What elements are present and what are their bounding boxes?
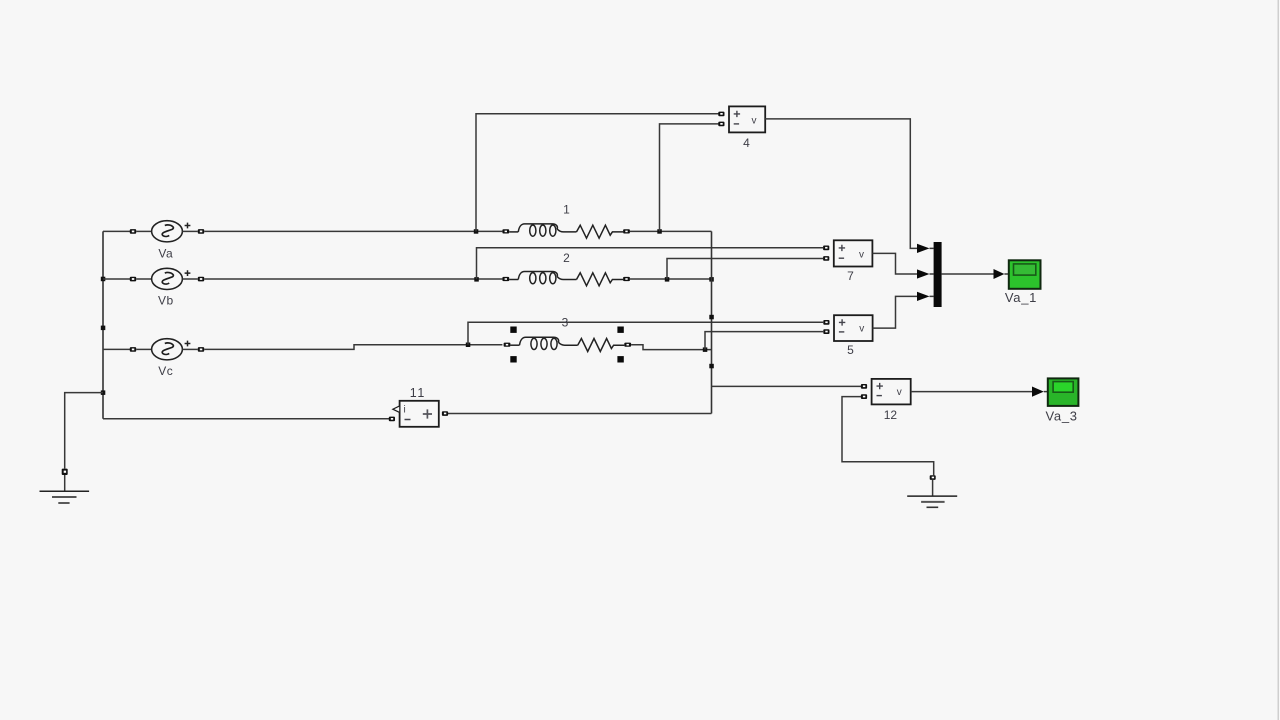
wire block 12 minus down to ground right bbox=[842, 397, 934, 476]
svg-text:Va_3: Va_3 bbox=[1045, 409, 1077, 424]
mux input arrow 3 bbox=[917, 292, 930, 301]
node block4 minus tap bbox=[657, 229, 662, 234]
svg-text:i: i bbox=[404, 405, 406, 416]
node branch3 input tap bbox=[466, 343, 471, 348]
arrowhead into scope Va_3 bbox=[1032, 387, 1044, 397]
node bus / branch2 bbox=[709, 277, 714, 282]
wire Vb output to branch 2 bbox=[204, 278, 502, 280]
svg-text:5: 5 bbox=[847, 343, 854, 357]
node right bus joint a bbox=[709, 315, 714, 320]
selection handle branch3 top-left bbox=[510, 327, 516, 333]
series RL branch 2 bbox=[502, 272, 629, 286]
node block7 plus tap on Vb wire bbox=[474, 277, 479, 282]
selection handle branch3 bottom-right bbox=[617, 356, 623, 362]
AC voltage source Vb bbox=[130, 268, 204, 307]
wire Vc row: bus to source bbox=[103, 348, 130, 350]
svg-text:v: v bbox=[752, 115, 757, 126]
wire tap up to block 7 plus bbox=[477, 248, 824, 279]
ground right bbox=[907, 475, 957, 507]
wire right bus vertical bbox=[711, 231, 713, 413]
wire bus to block 12 plus bbox=[712, 385, 862, 387]
wire branch1 output to right bus bbox=[630, 230, 712, 232]
wire stubs into mux bbox=[930, 248, 934, 296]
svg-text:11: 11 bbox=[410, 386, 426, 400]
series RL branch 3 bbox=[504, 337, 631, 351]
scope Va_3 bbox=[1045, 378, 1078, 423]
voltage measurement block 12 bbox=[861, 379, 911, 422]
mux input arrow 2 bbox=[917, 269, 930, 278]
svg-text:v: v bbox=[859, 324, 864, 335]
svg-text:Vc: Vc bbox=[158, 364, 173, 378]
selection handle branch3 bottom-left bbox=[510, 356, 516, 362]
node left bus mid joint bbox=[101, 326, 106, 331]
wire tap up to block 7 minus bbox=[667, 259, 823, 280]
svg-text:v: v bbox=[859, 249, 864, 260]
wire Va row: bus to source bbox=[103, 230, 130, 232]
svg-text:7: 7 bbox=[847, 269, 854, 283]
wire tap up to block 4 plus bbox=[476, 114, 719, 232]
svg-text:Va_1: Va_1 bbox=[1005, 290, 1037, 305]
svg-text:4: 4 bbox=[743, 136, 750, 150]
mux input arrow 1 bbox=[917, 244, 930, 253]
wire block 7 output to mux input 2 bbox=[872, 253, 917, 274]
svg-text:12: 12 bbox=[884, 408, 898, 422]
wire Vc output with step to branch 3 bbox=[204, 345, 502, 350]
wire block 4 output to mux input 1 bbox=[765, 119, 917, 249]
wire tap up to block 4 minus bbox=[660, 124, 719, 231]
wire bottom left to block 11 input bbox=[103, 418, 389, 420]
svg-text:Va: Va bbox=[158, 247, 173, 261]
svg-text:2: 2 bbox=[563, 251, 570, 265]
mux bar bbox=[934, 242, 942, 307]
voltage measurement block 7 bbox=[823, 240, 872, 283]
arrowhead into scope Va_1 bbox=[994, 269, 1005, 279]
series RL branch 1 bbox=[502, 224, 629, 238]
svg-text:3: 3 bbox=[562, 315, 569, 329]
scope Va_1 bbox=[1005, 260, 1041, 305]
current measurement block 11 bbox=[389, 386, 448, 427]
ground left bbox=[40, 469, 90, 503]
node block7 minus tap bbox=[665, 277, 670, 282]
AC voltage source Vc bbox=[130, 339, 204, 378]
svg-text:1: 1 bbox=[563, 202, 570, 216]
wire branch2 output to right bus bbox=[630, 278, 712, 280]
wire left bus to ground left bbox=[65, 393, 103, 469]
node block5 minus tap bbox=[703, 347, 708, 352]
wire Va output to branch 1 bbox=[204, 230, 502, 232]
wire mux output to scope Va_1 bbox=[942, 273, 994, 275]
wire branch3 output with step to right bus bbox=[631, 345, 711, 350]
wire Vb row: bus to source bbox=[103, 278, 130, 280]
svg-text:Vb: Vb bbox=[158, 294, 174, 308]
wire left bus vertical bbox=[102, 231, 104, 418]
svg-text:v: v bbox=[897, 387, 902, 398]
node right bus joint b bbox=[709, 364, 714, 369]
wire block 11 output to bus bbox=[448, 413, 712, 415]
selection handle branch3 top-right bbox=[617, 327, 623, 333]
AC voltage source Va bbox=[130, 221, 204, 261]
node left bus / Vb tee bbox=[101, 277, 106, 282]
wire tap up to block 5 plus bbox=[468, 322, 823, 344]
node left bus / ground tee bbox=[101, 390, 106, 395]
wire block 5 output to mux input 3 bbox=[873, 296, 917, 328]
wire tap up to block 5 minus bbox=[705, 332, 823, 350]
voltage measurement block 5 bbox=[823, 315, 872, 357]
node branch1 input tap bbox=[474, 229, 479, 234]
wire block 12 output to scope Va_3 bbox=[911, 391, 1032, 393]
voltage measurement block 4 bbox=[718, 106, 765, 150]
